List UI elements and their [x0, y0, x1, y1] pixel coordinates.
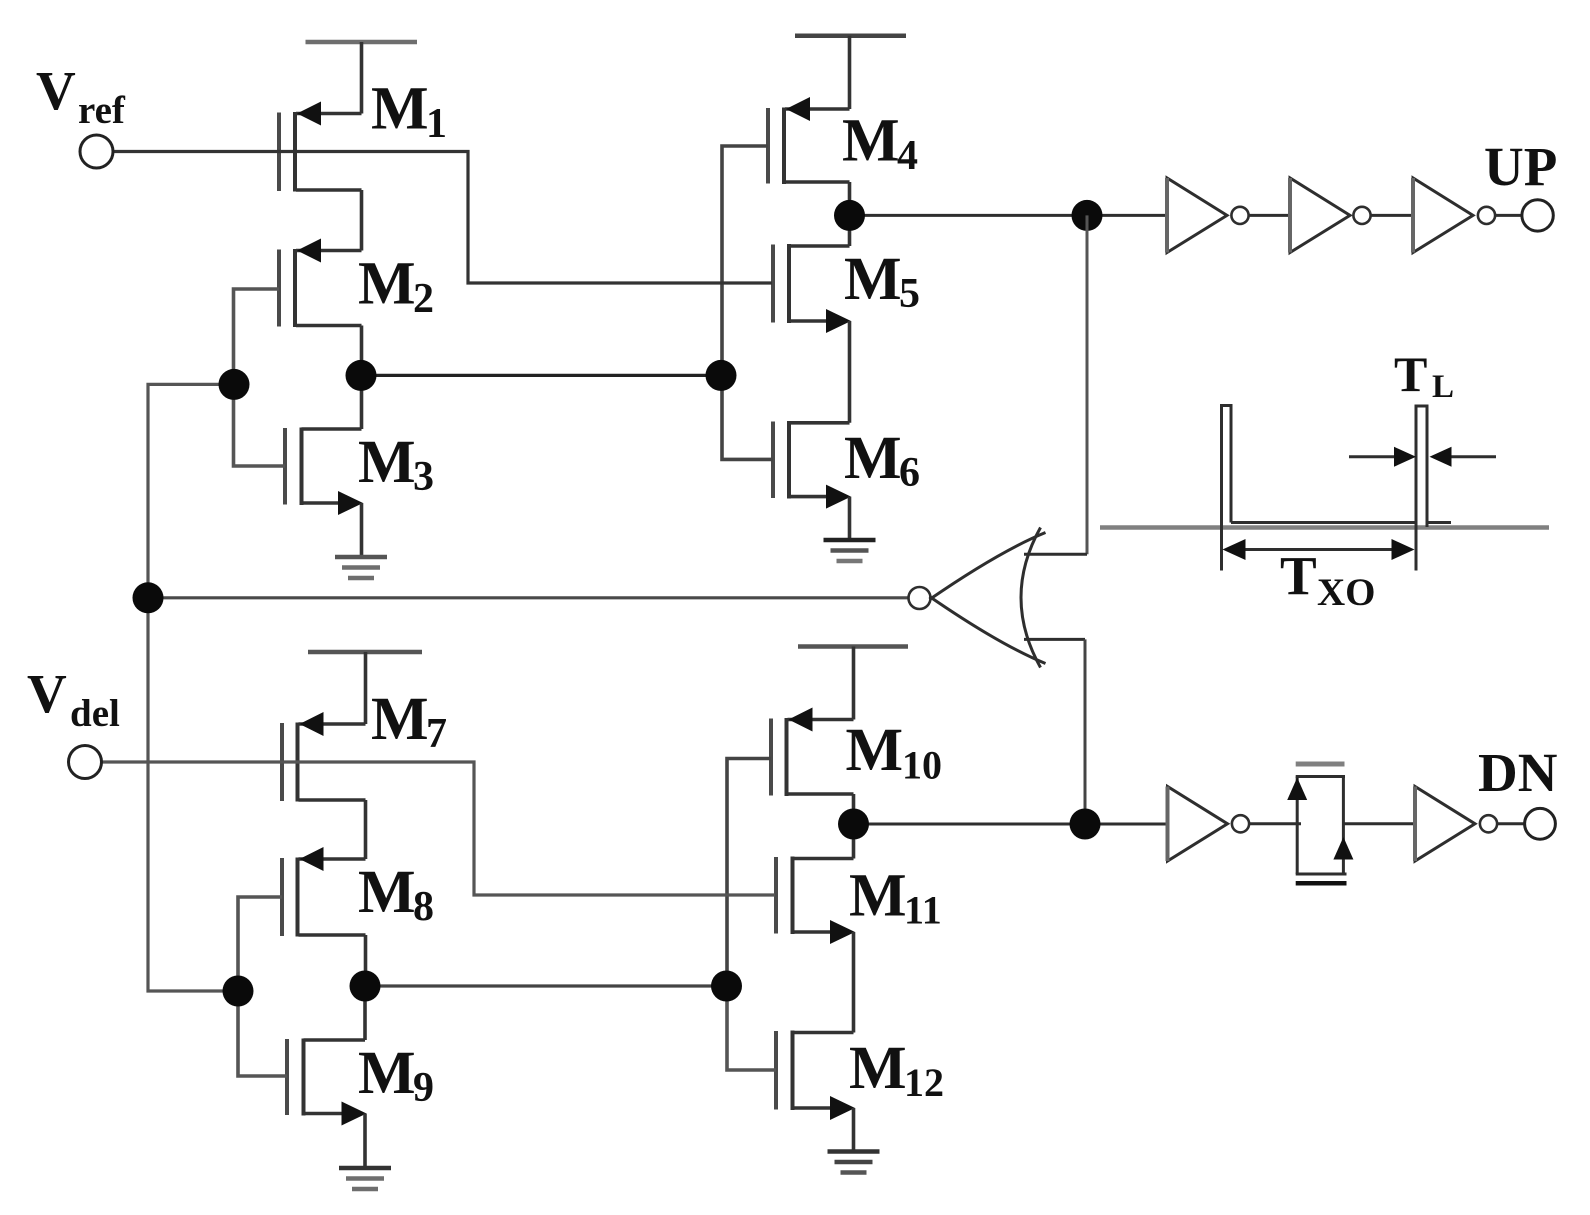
wire node A to M3 drain [360, 375, 364, 429]
wire U4 to delay cell [1249, 822, 1301, 825]
ground (M9) [339, 1168, 391, 1189]
svg-text:3: 3 [413, 454, 434, 500]
wire U5 to DN terminal [1497, 822, 1524, 825]
ground (M3) [335, 557, 387, 578]
svg-text:7: 7 [426, 711, 447, 757]
timing baseline [1100, 525, 1549, 530]
VDD rail bottom-left [308, 650, 422, 655]
svg-text:V: V [27, 663, 67, 724]
wire M3 source to ground [360, 503, 364, 557]
wire node B horizontal [365, 984, 727, 987]
terminal DN [1525, 808, 1556, 839]
wire UP branch down to NOR input [1086, 215, 1089, 554]
svg-text:XO: XO [1317, 571, 1376, 614]
wire U3 to UP terminal [1495, 214, 1522, 217]
node A left junction [346, 360, 377, 391]
wire U1 to U2 [1249, 214, 1290, 217]
wire M4 drain through UP node to M5 drain [848, 182, 852, 246]
wire delay cell to U5 [1343, 822, 1415, 825]
terminal Vref [80, 135, 113, 168]
junction UP node at M4 drain [834, 200, 865, 231]
NOR output bubble [909, 587, 931, 609]
svg-text:9: 9 [413, 1065, 434, 1111]
transistor M9 (NMOS) [287, 1039, 367, 1126]
svg-text:DN: DN [1478, 742, 1557, 803]
pulse 1 [1222, 406, 1232, 571]
wire M8 gate lead [238, 897, 282, 991]
terminal UP [1522, 200, 1553, 231]
node A right junction [706, 360, 737, 391]
wire M11 source to M12 drain [852, 932, 856, 1033]
svg-text:10: 10 [902, 743, 942, 788]
VDD rail bottom-right [798, 644, 908, 649]
wire Vdel input [102, 762, 776, 895]
svg-text:4: 4 [897, 133, 918, 179]
wire node A horizontal [361, 374, 721, 377]
transistor M3 (NMOS) [285, 428, 363, 516]
svg-text:12: 12 [904, 1060, 944, 1105]
transistor M5 (NMOS) [773, 244, 851, 333]
transistor M7 (PMOS) [282, 712, 366, 802]
svg-text:del: del [70, 692, 120, 735]
wire M6 source to ground [848, 497, 852, 540]
svg-text:L: L [1432, 369, 1454, 405]
wire gate node to left rail [148, 384, 238, 991]
VDD rail top-right [795, 33, 906, 38]
transistor M10 (PMOS) [771, 708, 854, 797]
transistor M6 (NMOS) [773, 421, 851, 509]
wire M2 drain to node A [360, 326, 364, 376]
transistor M1 (PMOS) [279, 102, 362, 192]
wire UP node [850, 214, 1168, 217]
transistor M2 (PMOS) [279, 239, 362, 328]
svg-text:11: 11 [904, 888, 942, 933]
ground (M12) [828, 1152, 880, 1173]
wire M8 drain to node B [364, 935, 368, 986]
wire M6 gate lead [722, 375, 773, 459]
svg-text:M: M [358, 429, 416, 496]
svg-text:M: M [358, 859, 416, 926]
wire M4 gate lead [722, 146, 768, 375]
svg-text:5: 5 [899, 271, 920, 317]
transistor M4 (PMOS) [768, 97, 850, 184]
svg-text:V: V [36, 60, 76, 121]
svg-text:M: M [849, 863, 907, 930]
wire DN node [854, 823, 1168, 826]
wire M1 drain to M2 source [360, 190, 364, 251]
svg-text:ref: ref [78, 89, 126, 132]
wire NOR bottom input down to DN node [1084, 639, 1087, 824]
inverter U4 [1168, 787, 1250, 862]
svg-text:M: M [842, 108, 900, 175]
svg-text:8: 8 [413, 884, 434, 930]
node B left junction [350, 971, 381, 1002]
dimension TL left arrow [1349, 447, 1416, 467]
svg-text:M: M [358, 1040, 416, 1107]
VDD rail top-left [306, 40, 418, 45]
wire M12 gate lead [727, 986, 776, 1070]
svg-text:M: M [371, 76, 429, 143]
terminal Vdel [69, 746, 102, 779]
svg-text:M: M [844, 425, 902, 492]
ground (M6) [824, 540, 876, 561]
svg-text:T: T [1394, 346, 1427, 402]
junction gate node top-left [219, 369, 250, 400]
wire M12 source to ground [852, 1108, 856, 1152]
inverter U3 [1413, 178, 1495, 253]
wire Vref input [114, 152, 773, 284]
wire M5 source to M6 drain [848, 321, 852, 423]
junction UP branch to NOR [1072, 200, 1103, 231]
inverter U2 [1290, 178, 1371, 253]
junction DN node at M10 drain [838, 809, 869, 840]
wire VDD to M4 source [848, 36, 852, 109]
inverter U1 [1167, 178, 1249, 253]
svg-text:2: 2 [413, 276, 434, 322]
inverter U5 [1415, 787, 1497, 862]
wire NOR output to left rail [148, 596, 908, 599]
wire VDD to M10 source [852, 647, 856, 720]
junction DN branch from NOR [1070, 809, 1101, 840]
svg-text:M: M [371, 686, 429, 753]
wire U2 to U3 [1371, 214, 1413, 217]
pulse 2 [1416, 406, 1427, 571]
junction NOR output tee [133, 582, 164, 613]
wire VDD to M7 source [364, 652, 368, 724]
svg-text:UP: UP [1484, 136, 1557, 197]
wire M2 gate lead [234, 289, 280, 384]
wire M3 gate lead [234, 384, 286, 466]
transistor M8 (PMOS) [282, 847, 366, 937]
wire NOR bottom input [1024, 638, 1085, 641]
svg-text:M: M [846, 717, 904, 784]
svg-text:M: M [358, 251, 416, 318]
wire M9 gate lead [238, 991, 287, 1076]
node B right junction [711, 971, 742, 1002]
delay cell (transmission-gate latch) [1287, 764, 1353, 883]
waveform low segment between pulses [1231, 521, 1416, 524]
wire node B to M9 drain [363, 986, 367, 1040]
NOR gate body (facing left) [930, 533, 1046, 600]
transistor M12 (NMOS) [776, 1031, 855, 1121]
svg-text:M: M [849, 1035, 907, 1102]
wire M10 gate lead [727, 759, 771, 987]
wire M10 drain through DN node to M11 drain [852, 794, 856, 859]
wire M9 source to ground [363, 1114, 367, 1169]
svg-text:T: T [1280, 546, 1317, 607]
wire M7 drain to M8 source [364, 800, 368, 859]
dimension TXO double arrow [1223, 539, 1415, 560]
wire VDD to M1 source [360, 42, 364, 114]
junction gate node bottom-left [223, 976, 254, 1007]
svg-text:1: 1 [426, 101, 447, 147]
transistor M11 (NMOS) [776, 857, 855, 945]
wire NOR top input [1024, 553, 1087, 556]
waveform low stub after pulse 2 [1427, 521, 1451, 524]
svg-text:M: M [844, 246, 902, 313]
dimension TL right arrow [1430, 447, 1497, 467]
svg-text:6: 6 [899, 450, 920, 496]
